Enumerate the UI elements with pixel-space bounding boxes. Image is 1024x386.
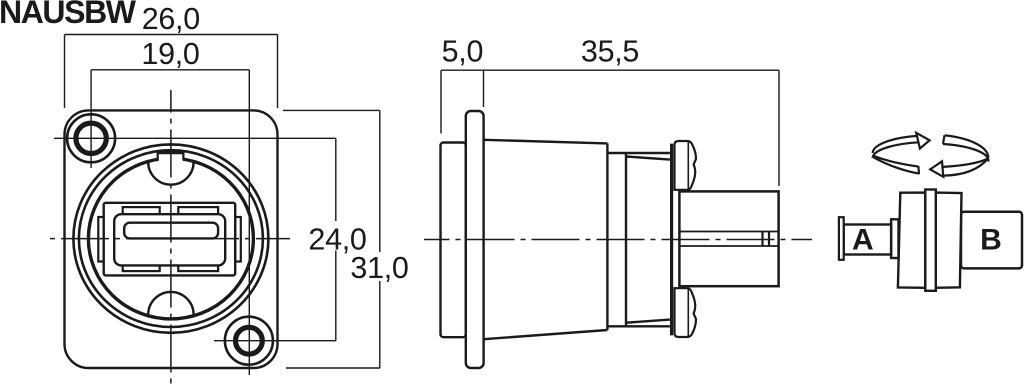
svg-text:A: A bbox=[852, 224, 874, 257]
svg-text:26,0: 26,0 bbox=[142, 2, 200, 36]
svg-text:31,0: 31,0 bbox=[350, 251, 408, 285]
svg-text:B: B bbox=[980, 224, 1002, 257]
svg-text:NAUSBW: NAUSBW bbox=[0, 0, 137, 30]
svg-text:19,0: 19,0 bbox=[141, 37, 199, 71]
svg-text:35,5: 35,5 bbox=[581, 35, 639, 69]
svg-text:5,0: 5,0 bbox=[442, 35, 484, 69]
